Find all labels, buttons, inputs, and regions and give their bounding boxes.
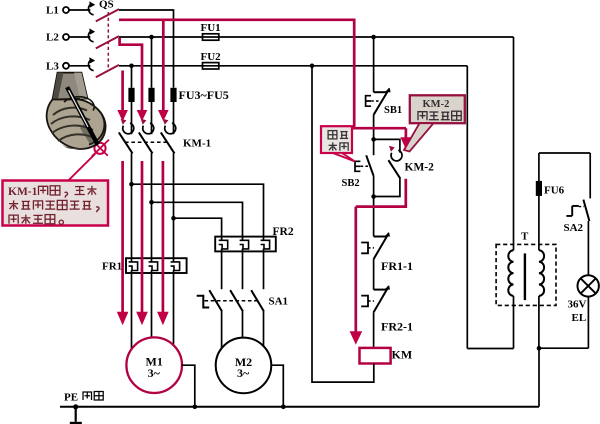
fuse FU6 bbox=[536, 181, 565, 197]
red flow below KM-1 col3 bbox=[162, 161, 165, 314]
ground symbol bbox=[70, 404, 82, 424]
wire KM-2 branch top bbox=[374, 139, 400, 152]
wire transformer primary bottom bbox=[467, 296, 513, 349]
wire KM coil return bbox=[310, 64, 374, 383]
svg-text:KM-2: KM-2 bbox=[423, 99, 450, 110]
wire secondary bottom to PE bbox=[537, 296, 542, 407]
label FR1 bbox=[102, 261, 122, 273]
contactor KM-1 pole 1 blade bbox=[119, 132, 133, 153]
wire FR2-1 to KM coil bbox=[373, 312, 375, 348]
red phase1 drop bbox=[162, 20, 165, 112]
coil KM bbox=[360, 348, 413, 364]
svg-text:FU2: FU2 bbox=[201, 51, 222, 63]
switch QS label bbox=[99, 0, 114, 11]
svg-text:SB1: SB1 bbox=[384, 105, 402, 116]
svg-text:3~: 3~ bbox=[237, 366, 250, 380]
fuse FU5 bbox=[170, 88, 176, 102]
lamp EL bbox=[568, 275, 599, 324]
red path through KM-2 bbox=[356, 179, 406, 207]
svg-text:FR2: FR2 bbox=[273, 226, 294, 238]
svg-text:QS: QS bbox=[99, 0, 114, 11]
wire column1 from L3 tap bbox=[129, 64, 134, 88]
svg-text:FU3~FU5: FU3~FU5 bbox=[179, 88, 229, 102]
contactor KM-2 blade bbox=[388, 160, 400, 178]
svg-text:KM-1: KM-1 bbox=[183, 137, 211, 149]
svg-text:L1: L1 bbox=[46, 5, 59, 17]
net L3 terminal and label bbox=[46, 60, 90, 72]
label FR2 bbox=[273, 226, 294, 238]
motor M2 bbox=[216, 338, 272, 394]
wire lamp return bbox=[539, 297, 588, 349]
switch QS pole 1 arc bbox=[89, 1, 96, 14]
wire SA1 to M2 bbox=[222, 311, 264, 352]
fuse FU1 bbox=[201, 22, 221, 40]
svg-text:FU1: FU1 bbox=[201, 22, 221, 34]
red arrow at KM coil bbox=[350, 331, 363, 344]
switch SA1 pole 3 blade bbox=[251, 290, 264, 311]
net L1 terminal and label bbox=[46, 5, 90, 17]
transformer T bbox=[496, 231, 556, 306]
label SA1 bbox=[269, 296, 289, 308]
wire KM-2 branch bottom bbox=[374, 178, 400, 196]
hand with pen bbox=[47, 73, 106, 150]
svg-text:KM-1: KM-1 bbox=[8, 186, 38, 198]
contactor KM-1 pole 2 arc bbox=[141, 119, 154, 134]
wire FR1-1 to FR2-1 bbox=[373, 259, 375, 290]
switch QS pole 3 arc bbox=[89, 57, 96, 70]
wire fuse to KM-1 leads bbox=[132, 102, 174, 134]
wire L3 feed down bbox=[466, 66, 468, 349]
wire secondary up through FU6 bbox=[538, 153, 540, 250]
svg-text:KM-2: KM-2 bbox=[405, 162, 435, 174]
pushbutton SB1 bbox=[366, 88, 402, 116]
contactor KM-1 linkage dashed bbox=[125, 141, 168, 143]
red arrow phase2 bbox=[137, 110, 148, 121]
switch SA1 linkage dashed bbox=[205, 300, 258, 302]
svg-text:FR1-1: FR1-1 bbox=[381, 259, 413, 273]
wire lamp top bbox=[539, 153, 590, 198]
wire tap column3 to FR2 bbox=[171, 216, 221, 241]
wire tap column2 to FR2 bbox=[149, 200, 242, 241]
wire L2 feed to transformer bbox=[513, 37, 515, 250]
svg-text:SA2: SA2 bbox=[564, 222, 584, 234]
red arrow phase3 bbox=[117, 110, 128, 121]
contactor KM-2 arc bbox=[389, 146, 402, 161]
red path L1 top bbox=[119, 20, 406, 128]
wire SB2 down bbox=[371, 176, 376, 237]
motor M1 bbox=[126, 337, 182, 393]
thermal relay FR2 box bbox=[215, 237, 276, 252]
label KM-1 bbox=[183, 137, 211, 149]
red arrow to motor col3 bbox=[157, 312, 169, 325]
red arrow into KM-2 bbox=[400, 128, 411, 149]
wire tap column1 to FR2 bbox=[129, 182, 263, 241]
wire column3 upper bbox=[0, 0, 1, 1]
label PE bbox=[64, 392, 103, 404]
wire KM-1 to FR1 bbox=[132, 153, 174, 262]
contactor KM-1 pole 3 blade bbox=[161, 132, 175, 153]
svg-text:L3: L3 bbox=[46, 60, 59, 72]
callout line to contact bbox=[69, 154, 96, 181]
fuse FU4 bbox=[148, 88, 154, 102]
svg-text:KM: KM bbox=[392, 348, 413, 362]
wire M2 return bbox=[271, 365, 286, 409]
red phase3 drop bbox=[121, 71, 124, 113]
switch SA1 pole 2 blade bbox=[230, 290, 243, 311]
switch QS linkage dashed bbox=[107, 12, 109, 71]
callout reset box bbox=[321, 126, 355, 161]
wire SB1 to SB2 bbox=[371, 115, 376, 155]
red flow below KM-1 col2 bbox=[141, 161, 144, 314]
wire L1 to column 3 bbox=[119, 10, 174, 88]
magnifier symbol bbox=[92, 140, 109, 157]
svg-text:EL: EL bbox=[572, 312, 587, 324]
callout KM-1 box bbox=[3, 181, 109, 226]
wire M1 return bbox=[182, 365, 198, 409]
wire column2 from L2 tap bbox=[149, 35, 154, 88]
wire PE bus bbox=[60, 406, 539, 408]
red arrow phase1 bbox=[158, 110, 169, 121]
label KM-2 bbox=[405, 162, 435, 174]
svg-text:FR2-1: FR2-1 bbox=[381, 320, 413, 334]
thermal contact FR2-1 bbox=[361, 285, 413, 333]
svg-text:FU6: FU6 bbox=[544, 185, 565, 197]
switch QS pole 2 arc bbox=[89, 28, 96, 41]
switch SA1 pole 1 blade bbox=[209, 290, 222, 311]
red flow below KM-1 col1 bbox=[121, 161, 124, 314]
switch QS pole 3 blade bbox=[96, 65, 119, 77]
contactor KM-1 pole 3 arc bbox=[163, 119, 176, 134]
red arrow to motor col2 bbox=[136, 312, 148, 325]
red arrow to motor col1 bbox=[117, 312, 129, 325]
svg-text:36V: 36V bbox=[568, 299, 587, 311]
wire FR2 to SA1 bbox=[222, 249, 264, 290]
contactor KM-1 pole 2 blade bbox=[139, 132, 153, 153]
svg-text:T: T bbox=[521, 231, 529, 243]
red phase2 drop bbox=[120, 38, 142, 112]
svg-text:L2: L2 bbox=[46, 31, 59, 43]
red path to KM coil bbox=[354, 207, 357, 332]
wire L2 across bbox=[119, 36, 514, 38]
wire L3 across bbox=[119, 65, 467, 67]
net L2 terminal and label bbox=[46, 31, 90, 43]
pushbutton SB2 bbox=[342, 155, 374, 189]
fuse FU2 bbox=[201, 51, 222, 69]
wire FR1 to M1 bbox=[132, 270, 174, 352]
switch QS pole 1 blade bbox=[96, 9, 119, 21]
callout KM-2 box bbox=[404, 95, 465, 151]
switch SA1 handle bbox=[197, 296, 210, 308]
thermal contact FR1-1 bbox=[361, 232, 413, 273]
svg-text:3~: 3~ bbox=[148, 366, 161, 380]
switch QS pole 2 blade bbox=[96, 36, 119, 48]
fuse FU3 bbox=[128, 88, 134, 102]
svg-text:PE: PE bbox=[64, 392, 78, 404]
svg-text:SA1: SA1 bbox=[269, 296, 289, 308]
contactor KM-1 pole 1 arc bbox=[121, 119, 134, 134]
thermal relay FR1 box bbox=[126, 258, 187, 273]
wire SB1 branch bbox=[371, 35, 376, 92]
wire SA2 to lamp bbox=[587, 221, 589, 275]
svg-text:FR1: FR1 bbox=[102, 261, 122, 273]
switch SA2 bbox=[564, 200, 590, 234]
svg-text:SB2: SB2 bbox=[342, 178, 360, 189]
label FU3~FU5 bbox=[179, 88, 229, 102]
